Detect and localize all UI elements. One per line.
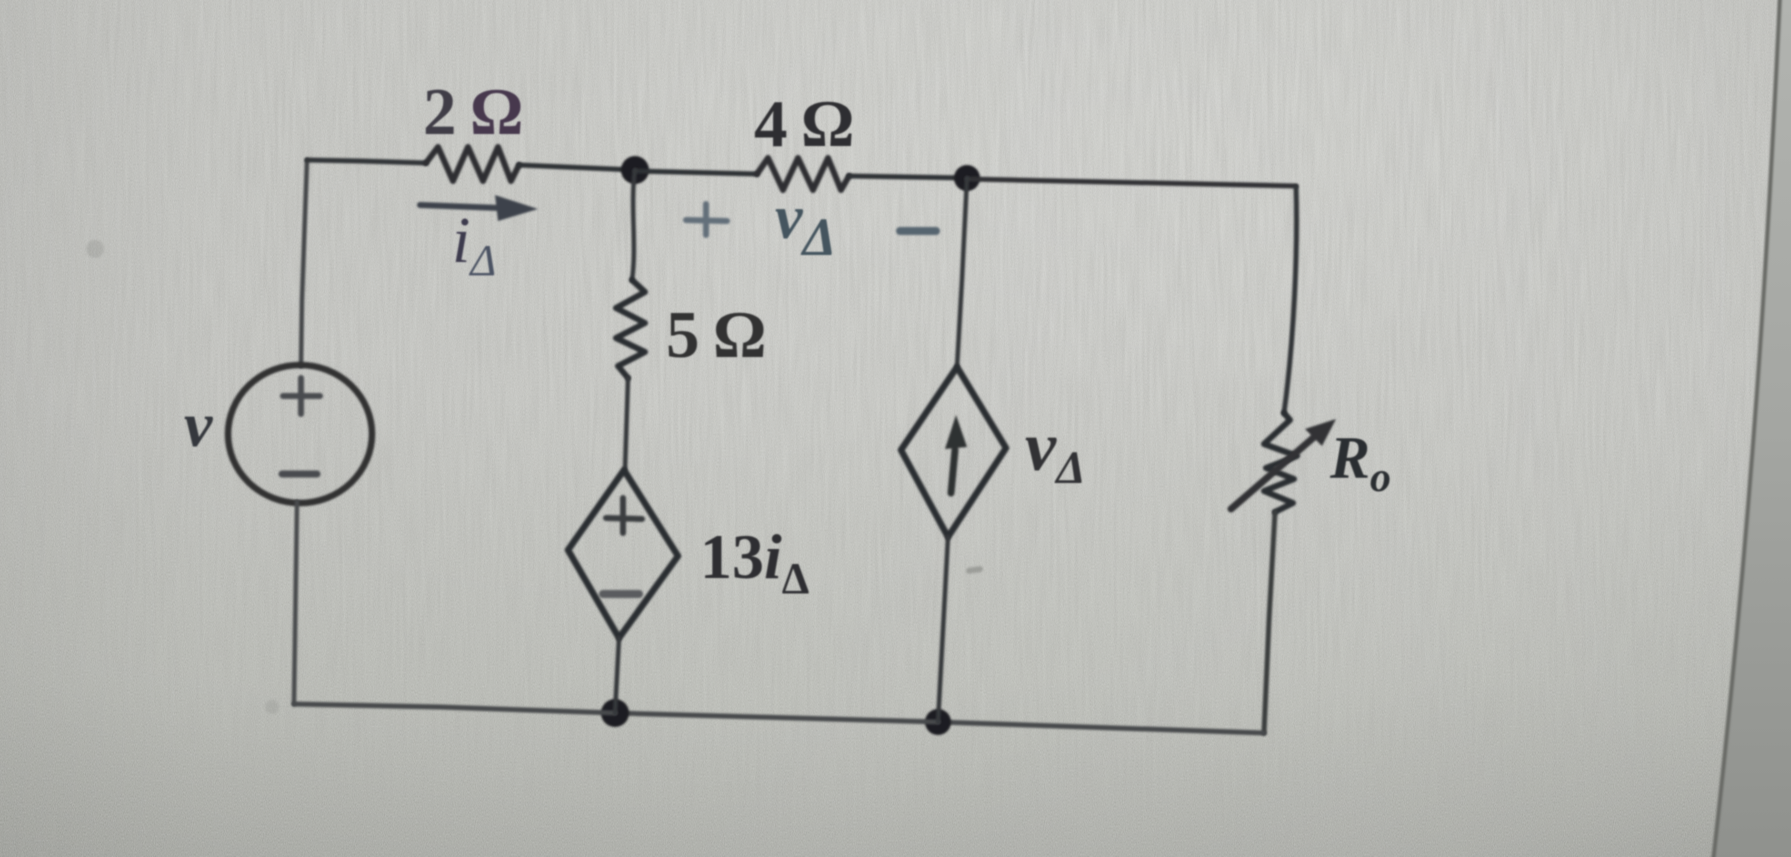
wire: node D to bottom-left corner (294, 704, 615, 713)
node A junction dot (621, 156, 649, 184)
wire: 5Ω to dependent source 13iΔ (625, 378, 628, 470)
dependent voltage source 13iΔ (diamond with + −) (568, 470, 678, 638)
wire: node A to 4Ω (635, 171, 757, 174)
wire: Ro to bottom-right corner (1264, 512, 1275, 733)
node D junction dot (601, 699, 629, 727)
wire: node C to node D (615, 713, 938, 722)
node C junction dot (925, 709, 951, 735)
svg-text:5 Ω: 5 Ω (666, 298, 767, 372)
current arrow iΔ (420, 195, 538, 221)
dependent current source vΔ (diamond with up arrow) (901, 367, 1006, 537)
wire: 2Ω to node A (519, 165, 635, 170)
arrow through Ro (1231, 419, 1336, 509)
wire: voltage source to bottom-left corner (294, 502, 297, 704)
svg-text:2 Ω: 2 Ω (423, 75, 524, 149)
wire: right branch top, corner to Ro (1284, 187, 1297, 413)
variable resistor Ro zigzag (1264, 413, 1297, 512)
resistor 4Ω zigzag (757, 158, 849, 190)
wire: 4Ω to node B (849, 176, 967, 178)
svg-text:v: v (184, 389, 213, 460)
svg-text:4 Ω: 4 Ω (754, 87, 855, 161)
wire: node B to top-right corner (967, 179, 1296, 186)
wire: top-left corner down to voltage source (301, 160, 307, 366)
label + polarity of vΔ (686, 204, 727, 235)
voltage source v (circle with + and -) (228, 365, 372, 503)
resistor 2Ω zigzag (426, 147, 519, 181)
label − polarity of vΔ (900, 227, 936, 235)
wire: 13iΔ to node D (615, 638, 619, 713)
resistor 5Ω zigzag (616, 280, 645, 378)
node B junction dot (954, 165, 980, 191)
wire: bottom-right corner to node C (938, 722, 1264, 733)
wire: current source to node C (938, 537, 948, 722)
wire: top-left corner to 2Ω (307, 160, 426, 163)
wire: node A down to 5Ω (632, 170, 635, 280)
wire: node B down to current source (957, 178, 967, 367)
